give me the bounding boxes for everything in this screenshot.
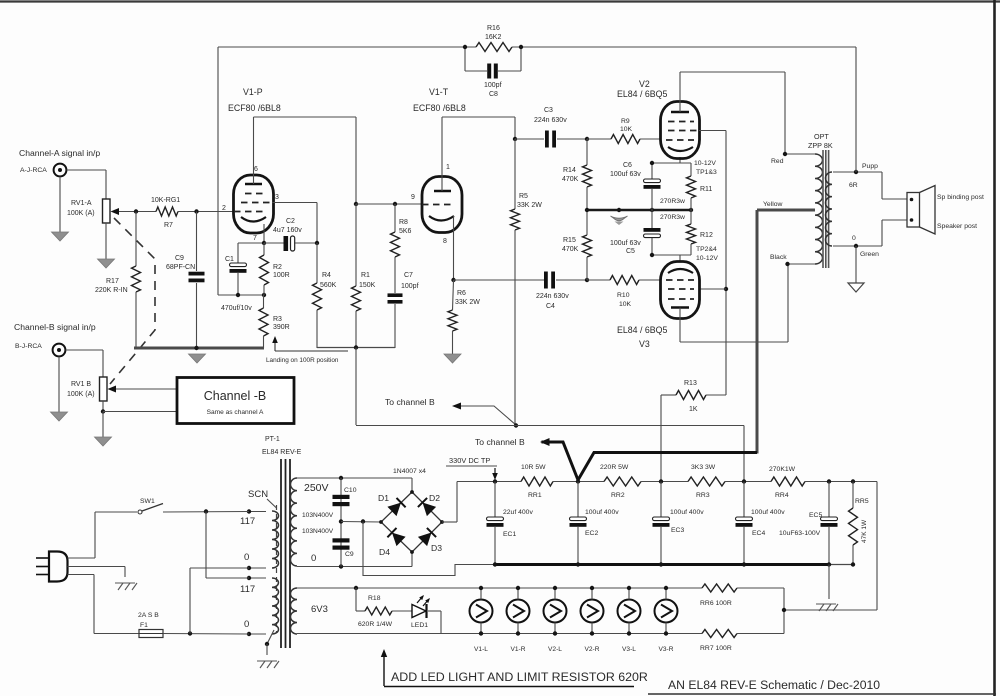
- wire RCA-B to pot: [66, 349, 104, 351]
- resistor R15: [583, 235, 592, 257]
- primary taps: [249, 511, 266, 513]
- svg-text:ECF80 /6BL8: ECF80 /6BL8: [228, 103, 281, 113]
- junction SW1 node: [204, 509, 208, 513]
- svg-text:0: 0: [852, 235, 856, 242]
- svg-text:RV1-A: RV1-A: [71, 200, 92, 207]
- screen dashed: [276, 505, 278, 632]
- svg-text:100K (A): 100K (A): [67, 391, 95, 398]
- V1-T plate bar: [434, 190, 451, 193]
- svg-text:R13: R13: [684, 380, 697, 387]
- svg-text:C10: C10: [344, 487, 357, 494]
- svg-text:R3: R3: [273, 316, 282, 323]
- svg-text:10K-RG1: 10K-RG1: [151, 197, 180, 204]
- ground wing symbol: [611, 216, 628, 221]
- tube V1-T: [422, 177, 462, 233]
- ground RV1-A bottom: [105, 223, 107, 260]
- capacitor C3: [515, 138, 544, 140]
- junction R18 top: [354, 586, 358, 590]
- ground bus output stage: [587, 209, 691, 212]
- svg-text:C2: C2: [286, 218, 295, 225]
- svg-text:EC1: EC1: [503, 531, 516, 538]
- junction grid node: [194, 209, 198, 213]
- junction C3 R14: [585, 137, 589, 141]
- bridge diamond: [381, 492, 442, 552]
- svg-text:117: 117: [240, 584, 255, 595]
- ground bus channel A: [134, 347, 264, 350]
- ground arrow bus: [189, 354, 206, 363]
- svg-text:D3: D3: [431, 543, 442, 553]
- svg-text:R5: R5: [519, 193, 528, 200]
- junction EC1 top: [493, 479, 497, 483]
- resistor RR1: [521, 477, 553, 486]
- wire feedback rail top: [218, 46, 476, 48]
- diode D4: [392, 533, 406, 547]
- svg-text:R17: R17: [106, 278, 119, 285]
- svg-text:470K: 470K: [562, 246, 579, 253]
- wire RCA-A to pot: [67, 169, 107, 171]
- svg-text:SCN: SCN: [248, 489, 268, 500]
- svg-text:220R 5W: 220R 5W: [600, 464, 629, 471]
- B+ rail: [457, 481, 521, 483]
- svg-text:100pf: 100pf: [484, 82, 502, 89]
- svg-text:1N4007 x4: 1N4007 x4: [393, 468, 426, 475]
- svg-text:270R3w: 270R3w: [660, 214, 685, 221]
- resistor R8: [394, 204, 396, 232]
- lamp V1-L: [470, 600, 493, 623]
- capacitor C5: [651, 210, 653, 228]
- svg-text:R16: R16: [487, 25, 500, 32]
- svg-text:10-12V: 10-12V: [696, 255, 718, 262]
- svg-text:8: 8: [443, 238, 447, 245]
- OPT secondary coil: [826, 172, 833, 246]
- potentiometer RV1-A: [103, 199, 111, 223]
- wire to-channel-B lower thick: [542, 442, 579, 480]
- diode D2: [423, 503, 437, 517]
- svg-text:To channel B: To channel B: [385, 397, 435, 407]
- junction EC5 node: [827, 479, 831, 483]
- capacitor C9 psu: [333, 538, 350, 542]
- svg-text:R7: R7: [164, 222, 173, 229]
- svg-text:22uf 400v: 22uf 400v: [503, 509, 533, 516]
- capacitor C2: [264, 242, 284, 244]
- heater rail top: [297, 587, 702, 589]
- resistor RR4: [771, 477, 805, 486]
- svg-text:D4: D4: [379, 547, 390, 557]
- junction EC4 node: [742, 479, 746, 483]
- svg-text:250V: 250V: [304, 482, 329, 494]
- channel B box: [177, 378, 294, 424]
- resistor R17: [135, 212, 137, 267]
- wire to speaker bottom: [881, 220, 883, 246]
- svg-text:270K1W: 270K1W: [769, 466, 796, 473]
- svg-text:To channel B: To channel B: [475, 437, 525, 447]
- svg-text:RR1: RR1: [528, 492, 542, 499]
- svg-text:R8: R8: [399, 219, 408, 226]
- svg-text:Black: Black: [770, 254, 787, 261]
- wire V3 plate to Black: [679, 308, 681, 343]
- svg-text:100R: 100R: [273, 272, 290, 279]
- svg-text:RR5: RR5: [855, 498, 869, 505]
- wire V1-P cathode: [263, 224, 265, 243]
- svg-text:5K6: 5K6: [399, 228, 412, 235]
- PT 250V secondary coil: [290, 478, 297, 566]
- wire 250V bottom to bridge: [297, 566, 412, 568]
- svg-text:V2: V2: [639, 79, 650, 89]
- svg-text:103N400V: 103N400V: [302, 512, 334, 519]
- svg-text:TP1&3: TP1&3: [696, 169, 717, 176]
- V1-P cathode arc: [241, 217, 266, 222]
- wire Yellow lead thick: [757, 209, 815, 212]
- svg-text:ZPP 8K: ZPP 8K: [808, 141, 833, 150]
- junction cap midpoint: [339, 519, 343, 523]
- svg-text:ECF80 /6BL8: ECF80 /6BL8: [413, 103, 466, 113]
- PT primary coil lower: [272, 578, 279, 634]
- svg-text:EC4: EC4: [752, 530, 765, 537]
- svg-text:Red: Red: [771, 158, 784, 165]
- svg-text:AN EL84 REV-E Schematic / De: AN EL84 REV-E Schematic / Dec-2010: [668, 678, 880, 692]
- resistor R3: [263, 295, 265, 308]
- lamp V1-R: [507, 600, 530, 623]
- capacitor C9 input: [196, 212, 198, 272]
- resistor RR3: [688, 477, 725, 486]
- wire 250V top to bridge: [297, 477, 412, 479]
- wire V2 screen: [699, 130, 726, 132]
- svg-text:V1-T: V1-T: [429, 87, 449, 97]
- capacitor EC1: [494, 482, 496, 518]
- svg-text:Landing on 100R position: Landing on 100R position: [266, 357, 339, 364]
- V3 grid rows: [666, 279, 694, 281]
- svg-text:R6: R6: [457, 290, 466, 297]
- lamp V3-L: [618, 600, 641, 623]
- wire earth: [68, 566, 126, 568]
- svg-text:Sp binding post: Sp binding post: [937, 194, 984, 201]
- svg-text:10R 5W: 10R 5W: [521, 464, 546, 471]
- svg-text:EL84 REV-E: EL84 REV-E: [262, 449, 302, 456]
- svg-text:390R: 390R: [273, 324, 290, 331]
- V1-T grid row: [422, 204, 452, 206]
- svg-text:2A S B: 2A S B: [138, 612, 159, 619]
- wire B+ to channel B drop: [355, 348, 357, 426]
- svg-text:100K (A): 100K (A): [67, 210, 95, 217]
- svg-text:7: 7: [253, 235, 257, 242]
- svg-text:SW1: SW1: [140, 498, 155, 505]
- wire grid line to V1-T: [356, 203, 422, 205]
- resistor R18: [355, 588, 357, 611]
- svg-text:R12: R12: [700, 232, 713, 239]
- svg-text:D1: D1: [378, 493, 389, 503]
- border frame top: [0, 0, 1000, 2]
- svg-text:C8: C8: [489, 91, 498, 98]
- wire Pupp feedback: [855, 47, 857, 172]
- border frame bottom-right: [648, 693, 996, 695]
- svg-text:Channel-A signal in/p: Channel-A signal in/p: [19, 148, 100, 158]
- svg-text:Channel-B signal in/p: Channel-B signal in/p: [14, 322, 96, 332]
- wire Red lead: [785, 153, 815, 155]
- svg-text:68PF-CN: 68PF-CN: [166, 264, 195, 271]
- wire feedback left drop: [217, 47, 219, 295]
- svg-text:EC3: EC3: [671, 527, 684, 534]
- junction EC3 R13 node: [659, 479, 663, 483]
- capacitor C8: [464, 47, 466, 71]
- wire pot B bottom: [102, 401, 104, 412]
- resistor R13: [661, 394, 676, 396]
- PT core: [280, 459, 282, 648]
- svg-text:100uf 400v: 100uf 400v: [670, 509, 704, 516]
- svg-text:1: 1: [446, 164, 450, 171]
- svg-text:V1-L: V1-L: [474, 646, 488, 653]
- svg-text:Green: Green: [860, 251, 879, 258]
- svg-text:EC2: EC2: [585, 530, 598, 537]
- svg-text:10-12V: 10-12V: [694, 160, 716, 167]
- border frame right: [993, 0, 996, 696]
- svg-text:117: 117: [240, 516, 255, 527]
- wire to speaker top: [881, 172, 883, 199]
- LED arrows: [417, 596, 423, 603]
- tube V1-P: [234, 175, 274, 233]
- svg-text:224n 630v: 224n 630v: [534, 117, 567, 124]
- OPT primary coil: [815, 154, 823, 264]
- svg-text:3: 3: [275, 194, 279, 201]
- ground RCA-A: [59, 177, 61, 234]
- V3 cathode arc top: [668, 269, 693, 273]
- svg-text:3K3 3W: 3K3 3W: [691, 464, 716, 471]
- resistor R9: [587, 138, 611, 140]
- junction R16 left: [463, 45, 467, 49]
- svg-text:47K 1W: 47K 1W: [861, 519, 868, 543]
- capacitor C10: [340, 478, 342, 567]
- resistor R7: [156, 207, 178, 216]
- resistor R10: [587, 279, 610, 281]
- svg-text:EL84 / 6BQ5: EL84 / 6BQ5: [617, 89, 667, 99]
- wire V1-T plate to C3 node: [441, 117, 443, 191]
- svg-text:100uf 400v: 100uf 400v: [751, 509, 785, 516]
- PT primary coil upper: [272, 511, 279, 568]
- capacitor EC3: [660, 482, 662, 518]
- heater return vertical: [783, 588, 785, 634]
- tube V3: [661, 262, 700, 319]
- capacitor C7: [388, 293, 403, 297]
- svg-text:C5: C5: [626, 248, 635, 255]
- RCA jack B: [53, 344, 66, 357]
- svg-text:V3: V3: [639, 339, 650, 349]
- resistor R16: [476, 43, 512, 52]
- resistor R4: [316, 243, 318, 283]
- svg-text:RR7 100R: RR7 100R: [700, 645, 732, 652]
- heater rail bottom: [297, 633, 702, 635]
- RCA jack A: [54, 164, 67, 177]
- svg-text:Speaker post: Speaker post: [937, 223, 977, 230]
- svg-text:Yellow: Yellow: [763, 201, 782, 208]
- svg-text:0: 0: [244, 552, 249, 563]
- svg-text:C4: C4: [546, 303, 555, 310]
- wire V2 plate to Red: [679, 72, 681, 112]
- V1-P grid rows: [245, 193, 266, 195]
- wire V2 cathode node: [652, 162, 691, 164]
- resistor R2: [263, 243, 265, 255]
- V2 plate bar: [671, 111, 689, 114]
- svg-text:OPT: OPT: [814, 132, 829, 141]
- junction RR5 node: [851, 479, 855, 483]
- svg-text:103N400V: 103N400V: [302, 528, 334, 535]
- svg-text:150K: 150K: [359, 282, 376, 289]
- wiper RV1-A: [118, 211, 156, 213]
- svg-text:33K 2W: 33K 2W: [455, 299, 480, 306]
- svg-text:R11: R11: [700, 186, 712, 193]
- ground rail thick: [495, 563, 829, 566]
- svg-text:2: 2: [222, 205, 226, 212]
- svg-text:10K: 10K: [619, 301, 632, 308]
- svg-text:PT-1: PT-1: [265, 436, 280, 443]
- diode D3: [418, 533, 432, 547]
- svg-text:470uf/10v: 470uf/10v: [221, 305, 252, 312]
- resistor R11: [690, 163, 692, 176]
- svg-text:100uf 400v: 100uf 400v: [585, 509, 619, 516]
- fuse F1: [139, 630, 163, 638]
- wire V1-T cathode: [453, 216, 455, 280]
- B+ thick drop: [756, 210, 759, 454]
- resistor RR5: [852, 482, 854, 509]
- B+ thick feed: [578, 453, 757, 481]
- wire screen return: [363, 522, 495, 576]
- svg-text:V2-L: V2-L: [548, 646, 562, 653]
- wire cathode node to C1: [238, 242, 264, 244]
- svg-text:TP2&4: TP2&4: [696, 246, 717, 253]
- capacitor C4: [454, 279, 545, 281]
- svg-text:0: 0: [244, 619, 249, 630]
- svg-text:EC5: EC5: [809, 512, 822, 519]
- junction EC2 top V node: [576, 479, 580, 483]
- LED1: [412, 605, 426, 618]
- SCN ground: [267, 630, 274, 644]
- ground hatch EC5: [828, 565, 830, 600]
- svg-text:220K R-IN: 220K R-IN: [95, 287, 128, 294]
- svg-text:0: 0: [311, 553, 316, 564]
- svg-text:C7: C7: [404, 272, 413, 279]
- OPT core: [822, 150, 824, 268]
- junction R16 right: [519, 45, 523, 49]
- B+ distribution segment: [317, 347, 395, 349]
- potentiometer RV1-B: [100, 377, 108, 401]
- capacitor C1: [237, 243, 239, 263]
- svg-text:560K: 560K: [320, 282, 337, 289]
- svg-text:4u7 160v: 4u7 160v: [273, 227, 302, 234]
- ground arrow R6: [444, 354, 461, 363]
- svg-text:V3-R: V3-R: [658, 646, 673, 653]
- resistor R1: [355, 204, 357, 286]
- svg-text:Pupp: Pupp: [862, 163, 878, 170]
- svg-text:R9: R9: [621, 118, 630, 125]
- V1-T cathode arc: [429, 216, 454, 221]
- mechanical gang dashed link: [110, 218, 155, 384]
- svg-text:6R: 6R: [849, 182, 858, 189]
- wire secondary top: [833, 171, 882, 173]
- svg-text:620R 1/4W: 620R 1/4W: [358, 621, 393, 628]
- svg-text:V1-P: V1-P: [243, 87, 263, 97]
- svg-text:LED1: LED1: [411, 622, 428, 629]
- svg-text:9: 9: [411, 194, 415, 201]
- arrow landing: [275, 350, 348, 352]
- svg-text:ADD LED LIGHT AND LIMIT RESIST: ADD LED LIGHT AND LIMIT RESISTOR 620R: [391, 670, 648, 684]
- wire live to switch: [68, 557, 96, 559]
- tube V2: [661, 102, 700, 159]
- humdinger feed: [876, 482, 878, 611]
- junction C4 R15: [585, 278, 589, 282]
- wire Black lead: [787, 263, 815, 265]
- svg-text:1K: 1K: [689, 406, 698, 413]
- junction R8 top: [393, 202, 397, 206]
- resistor RR6: [702, 584, 737, 592]
- svg-text:RR4: RR4: [775, 492, 789, 499]
- wire C1 bottom node: [218, 294, 264, 296]
- svg-text:16K2: 16K2: [485, 34, 501, 41]
- resistor R5: [514, 139, 516, 209]
- svg-text:D2: D2: [429, 493, 440, 503]
- lamp V2-L: [544, 600, 567, 623]
- bridge vertex dots: [410, 490, 414, 494]
- switch SW1: [138, 510, 142, 514]
- svg-text:R10: R10: [617, 292, 630, 299]
- svg-text:C9: C9: [175, 255, 184, 262]
- wire V3 screen: [699, 288, 726, 290]
- V2 cathode arc: [668, 147, 693, 151]
- svg-text:10uF63-100V: 10uF63-100V: [779, 530, 821, 537]
- svg-text:R4: R4: [322, 272, 331, 279]
- svg-text:R18: R18: [368, 595, 381, 602]
- wiper RV1-B: [115, 388, 177, 390]
- svg-text:Same as channel A: Same as channel A: [207, 409, 264, 416]
- ground RCA-B: [58, 357, 60, 414]
- diode D1: [387, 503, 401, 516]
- junction plate node R1: [354, 202, 358, 206]
- resistor RR2: [604, 477, 641, 486]
- wire neutral fuse: [68, 574, 95, 576]
- junction wiper node: [134, 209, 138, 213]
- svg-text:R15: R15: [563, 237, 576, 244]
- resistor R6: [448, 310, 457, 331]
- svg-text:224n 630v: 224n 630v: [536, 293, 569, 300]
- svg-text:V1-R: V1-R: [510, 646, 525, 653]
- svg-text:R2: R2: [273, 264, 282, 271]
- svg-text:R1: R1: [361, 272, 370, 279]
- wire to-channel-B upper: [455, 406, 517, 425]
- svg-text:R14: R14: [563, 167, 576, 174]
- resistor R12: [690, 210, 692, 224]
- capacitor C6: [651, 163, 653, 179]
- svg-text:EL84 / 6BQ5: EL84 / 6BQ5: [617, 325, 667, 335]
- svg-text:RR2: RR2: [611, 492, 625, 499]
- caption arrow: [383, 654, 385, 686]
- V2 grid rows: [668, 121, 694, 123]
- ground output: [855, 246, 857, 284]
- speaker: [907, 193, 920, 228]
- svg-text:RR3: RR3: [696, 492, 710, 499]
- screen bus vertical: [725, 131, 727, 396]
- svg-text:33K 2W: 33K 2W: [517, 202, 542, 209]
- svg-text:270R3w: 270R3w: [660, 198, 685, 205]
- svg-text:470K: 470K: [562, 176, 579, 183]
- V3 plate bar: [671, 306, 689, 309]
- wire bridge plus: [442, 521, 457, 523]
- svg-text:RR6 100R: RR6 100R: [700, 600, 732, 607]
- resistor R14: [586, 139, 588, 165]
- svg-text:C9: C9: [345, 551, 354, 558]
- wire V1-P plate to top: [253, 117, 255, 184]
- wire V1-P pin3: [272, 202, 317, 204]
- plug: [49, 552, 68, 582]
- svg-text:F1: F1: [140, 622, 148, 629]
- svg-text:10K: 10K: [620, 126, 633, 133]
- V1-P plate bar: [245, 183, 262, 186]
